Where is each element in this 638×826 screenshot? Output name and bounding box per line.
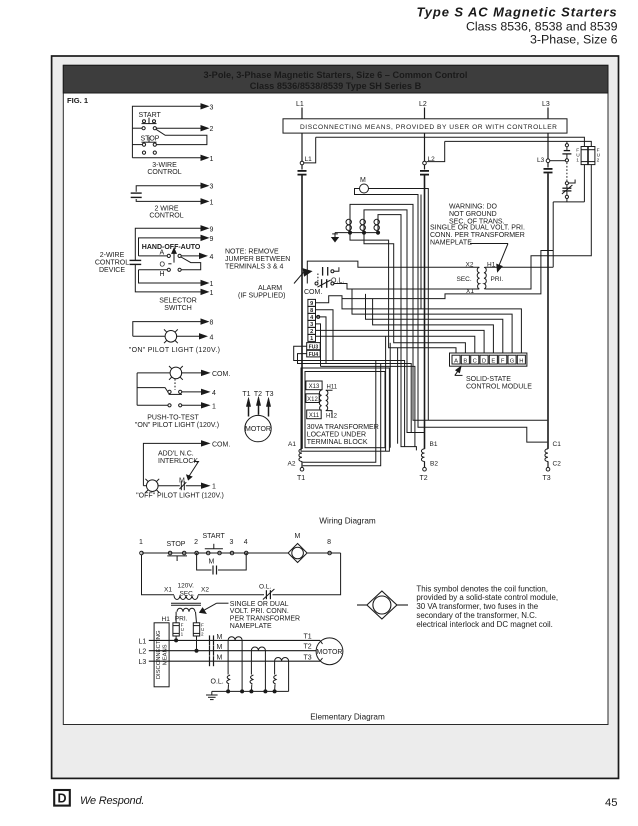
svg-text:Class 8536, 8538 and 8539: Class 8536, 8538 and 8539 [466, 20, 618, 34]
L2 phase wire [149, 650, 316, 652]
svg-text:T3: T3 [265, 391, 273, 398]
inner figure panel [63, 65, 608, 724]
FU2 drop to L2 [196, 636, 198, 651]
svg-text:X1: X1 [164, 587, 172, 594]
svg-text:1: 1 [181, 632, 184, 637]
svg-text:STOP: STOP [167, 541, 186, 548]
svg-text:CONTROL: CONTROL [147, 169, 181, 176]
svg-text:1: 1 [210, 290, 214, 297]
M contact L3 [210, 655, 223, 667]
M contact L1 [210, 634, 223, 646]
long wire 8/FU3 down [333, 361, 405, 447]
terminal X11 [307, 410, 322, 419]
svg-text:FU3: FU3 [309, 344, 319, 350]
jumper wire L1 to FU2 [316, 137, 585, 146]
svg-text:PUSH-TO-TEST: PUSH-TO-TEST [147, 414, 199, 421]
wire X1 to O.L. N.C. [334, 284, 479, 290]
pole 3 feed wire to B2 stub [378, 215, 416, 451]
svg-text:LOCATED UNDER: LOCATED UNDER [307, 431, 366, 438]
heater drop T2a with O.L. element [250, 651, 253, 692]
svg-text:C: C [473, 358, 477, 364]
T1 terminal circle [300, 461, 304, 471]
svg-text:A1: A1 [288, 441, 296, 448]
pole 2 load wire to module B [364, 233, 465, 353]
svg-text:C2: C2 [553, 461, 562, 468]
coil symbol diamond [357, 591, 408, 619]
interlock mechanical link [566, 163, 568, 182]
wire terminal 9 to module H [316, 296, 522, 353]
svg-text:T2: T2 [304, 643, 312, 650]
2-wire control device contact [130, 260, 142, 264]
interlock N.C. contact [158, 481, 209, 490]
L3 pole: wire, terminal circle, fuse clips [544, 133, 553, 449]
svg-text:B2: B2 [430, 461, 438, 468]
svg-text:TERMINALS 3 & 4: TERMINALS 3 & 4 [225, 264, 283, 271]
stop lower terminals [142, 151, 156, 154]
pole 2 feed wire to B1 [364, 210, 425, 433]
svg-text:NAMEPLATE: NAMEPLATE [430, 240, 472, 247]
svg-text:L1: L1 [139, 638, 147, 645]
svg-text:FIG. 1: FIG. 1 [67, 96, 89, 105]
wire terminal 4 down [316, 317, 327, 364]
ON pilot light [133, 329, 207, 343]
coil C [545, 449, 548, 462]
30VA transformer inner box [305, 372, 385, 448]
svg-text:9: 9 [210, 236, 214, 243]
svg-text:HAND-OFF-AUTO: HAND-OFF-AUTO [142, 244, 201, 251]
motor lead slants [320, 640, 323, 644]
rail left drop [142, 555, 175, 595]
jumper wire L2 to interlock contact [445, 141, 592, 146]
svg-text:O.L.: O.L. [331, 278, 344, 285]
svg-text:2: 2 [201, 632, 204, 637]
ground symbol (elementary) [206, 691, 218, 699]
L1 phase wire [149, 639, 320, 641]
add'l interlock wire to COM. [143, 441, 209, 486]
svg-text:NOTE: REMOVE: NOTE: REMOVE [225, 249, 279, 256]
selector switch: wire to 9 (outer) [135, 226, 208, 260]
pole 1 feed wire to C upper [350, 204, 547, 420]
wire interlock lower to fuse bus [553, 165, 584, 202]
coil B [421, 449, 424, 462]
wire X2 to O.L. [198, 594, 264, 596]
terminal 2 [194, 539, 198, 555]
svg-text:"OFF" PILOT LIGHT (120V.): "OFF" PILOT LIGHT (120V.) [136, 492, 224, 499]
svg-text:ADD'L N.C.: ADD'L N.C. [158, 451, 194, 458]
svg-text:DISCONNECTING MEANS, PROVIDE: DISCONNECTING MEANS, PROVIDED BY USER OR… [300, 124, 557, 131]
L1 pole: wire, terminal circle, fuse clips [298, 133, 307, 449]
mechanical link dashes [174, 379, 176, 390]
wire A to H loop [181, 257, 201, 270]
svg-text:8: 8 [327, 539, 331, 546]
terminal block 4 [308, 313, 316, 321]
svg-text:COM.: COM. [304, 289, 322, 296]
pole 1 load wire to module A [350, 233, 456, 353]
transformer primary winding (elementary) [177, 608, 195, 612]
svg-text:A2: A2 [288, 461, 296, 468]
MAIN_DIAGRAM [139, 533, 343, 700]
wire start to stop loop [156, 129, 207, 144]
30VA transformer windings [319, 390, 321, 410]
N.C. interlock contact lower [562, 180, 575, 199]
legend text [416, 584, 558, 629]
30VA winding leads [326, 389, 332, 392]
svg-text:T3: T3 [543, 475, 551, 482]
svg-text:D: D [482, 358, 486, 364]
wire stub right of L2 [420, 195, 422, 309]
svg-text:SINGLE OR DUAL: SINGLE OR DUAL [230, 601, 289, 608]
terminal X13 [306, 381, 322, 390]
stop contact N.C. [167, 551, 187, 561]
left rail push-to-test [136, 373, 138, 405]
svg-text:3-WIRE: 3-WIRE [152, 162, 177, 169]
contactor pole 3 [374, 217, 379, 233]
svg-text:1: 1 [210, 199, 214, 206]
L2 incoming wire [424, 108, 426, 119]
svg-text:4: 4 [210, 334, 214, 341]
M contact L2 [210, 644, 223, 656]
svg-text:L1: L1 [305, 156, 313, 163]
svg-text:M: M [217, 644, 223, 651]
overload common bus [212, 690, 289, 692]
ON pilot light wire to 8 [133, 319, 208, 336]
long wire 3 down [321, 366, 415, 446]
svg-text:(IF SUPPLIED): (IF SUPPLIED) [238, 293, 285, 300]
svg-text:STOP: STOP [141, 136, 160, 143]
svg-text:1: 1 [310, 336, 313, 342]
test switch row 4 [137, 388, 209, 395]
fuse FU2 (elementary) [193, 623, 199, 636]
3-wire control: top wire to terminal 3 [132, 104, 208, 158]
disconnecting means box [283, 119, 567, 133]
svg-text:B: B [463, 358, 467, 364]
2-wire device contact [131, 193, 142, 197]
svg-text:JUMPER BETWEEN: JUMPER BETWEEN [225, 256, 290, 263]
wire X2 to O.L. block [307, 261, 479, 283]
svg-text:T3: T3 [304, 655, 312, 662]
wire terminal 2 to module D [316, 330, 485, 353]
svg-text:secondary of the transformer,: secondary of the transformer, N.C. [416, 611, 537, 620]
wire X1 tap to module G [352, 289, 512, 353]
coil A [299, 449, 302, 462]
wire down to terminal block (left) [385, 336, 387, 451]
figure header bar [63, 65, 608, 93]
svg-text:SWITCH: SWITCH [164, 305, 192, 312]
wire down to A2 (right) [303, 364, 381, 466]
wire tap to control network [342, 251, 553, 299]
svg-text:30VA TRANSFORMER: 30VA TRANSFORMER [307, 424, 379, 431]
svg-text:L2: L2 [139, 649, 147, 656]
svg-text:X11: X11 [309, 413, 320, 419]
svg-text:CONTROL: CONTROL [95, 260, 129, 267]
M coil diamond symbol [288, 544, 307, 563]
terminal block 9 [308, 299, 316, 307]
junction dots [348, 231, 351, 234]
module pointer [455, 367, 463, 376]
svg-text:COM.: COM. [212, 371, 230, 378]
O.L. N.O. contact [323, 267, 339, 276]
30VA transformer outer box [301, 368, 389, 451]
terminal 1 [139, 539, 143, 555]
heater drop T3a with O.L. element [273, 661, 276, 691]
svg-text:START: START [139, 112, 162, 119]
terminal block 2 [308, 327, 316, 335]
svg-text:O: O [160, 261, 166, 268]
wire to 9 (inner) [139, 235, 209, 256]
T3 terminal circle [546, 461, 550, 471]
svg-text:TERMINAL BLOCK: TERMINAL BLOCK [307, 439, 368, 446]
T2 terminal circle [423, 461, 427, 471]
O.L. N.C. contact [315, 279, 334, 288]
wire tap to module E [373, 299, 494, 353]
svg-text:Class 8536/8538/8539 Type SH S: Class 8536/8538/8539 Type SH Series B [250, 81, 422, 91]
primary lead to FU1 [175, 612, 177, 623]
solid-state module terminal strip [450, 353, 527, 366]
svg-text:L3: L3 [537, 157, 545, 164]
O position dash [168, 263, 171, 265]
svg-text:MOTOR: MOTOR [245, 426, 271, 433]
svg-text:PRI.: PRI. [491, 276, 504, 283]
svg-text:L2: L2 [419, 101, 427, 108]
svg-text:"ON" PILOT LIGHT (120V.): "ON" PILOT LIGHT (120V.) [129, 347, 220, 354]
L3 incoming wire [547, 108, 549, 119]
svg-text:DEVICE: DEVICE [99, 267, 125, 274]
svg-text:SINGLE OR DUAL VOLT. PRI.: SINGLE OR DUAL VOLT. PRI. [430, 225, 525, 232]
start contact N.O. [205, 544, 223, 555]
wire terminal 3 down [316, 324, 321, 367]
svg-text:F: F [501, 358, 505, 364]
svg-text:1: 1 [576, 158, 579, 164]
svg-text:Elementary Diagram: Elementary Diagram [310, 713, 385, 722]
svg-text:O.L.: O.L. [259, 584, 271, 591]
svg-text:2-WIRE: 2-WIRE [100, 252, 125, 259]
svg-text:1: 1 [139, 539, 143, 546]
svg-text:WARNING: DO: WARNING: DO [449, 204, 498, 211]
svg-text:1: 1 [212, 403, 216, 410]
terminal 3 [230, 539, 234, 555]
coil wire left to C1 [355, 189, 548, 443]
svg-text:CONN. PER TRANSFORMER: CONN. PER TRANSFORMER [430, 232, 525, 239]
M seal-in branch [197, 553, 247, 575]
svg-text:SOLID-STATE: SOLID-STATE [466, 376, 511, 383]
heater drop T1b [241, 640, 243, 691]
nameplate pointer [470, 244, 508, 272]
wire bus to transformer H1 [552, 202, 554, 267]
terminal block 3 [308, 320, 316, 328]
svg-text:A: A [454, 358, 458, 364]
svg-text:45: 45 [605, 797, 617, 809]
svg-text:T1: T1 [297, 475, 305, 482]
terminal block 1 [308, 334, 316, 342]
svg-text:T2: T2 [254, 391, 262, 398]
svg-text:2: 2 [597, 158, 600, 164]
svg-text:MOTOR: MOTOR [317, 649, 343, 656]
svg-text:"ON" PILOT LIGHT (120V.): "ON" PILOT LIGHT (120V.) [135, 422, 219, 429]
OFF pilot light [143, 479, 159, 493]
primary lead to FU2 [196, 612, 197, 623]
svg-text:CONTROL: CONTROL [149, 213, 183, 220]
contactor coil M [360, 184, 369, 193]
fuse block FU3 [307, 343, 321, 351]
L1 terminal bracket [304, 137, 316, 163]
terminal 4 wire circle [317, 315, 320, 318]
svg-text:ALARM: ALARM [258, 285, 282, 292]
svg-text:1: 1 [210, 156, 214, 163]
svg-text:30 VA transformer, two fuses i: 30 VA transformer, two fuses in the [416, 602, 538, 611]
svg-text:G: G [510, 358, 515, 364]
overload heater T1 [228, 637, 242, 640]
wire down from module A line [397, 348, 399, 444]
terminal 8 [327, 539, 331, 555]
Square D logo [54, 790, 70, 806]
bus junction dots [227, 690, 230, 693]
svg-text:SEC.: SEC. [457, 276, 472, 283]
svg-text:COM.: COM. [212, 441, 230, 448]
coil wire right into bundle [369, 189, 429, 421]
svg-text:provided by a solid-state cont: provided by a solid-state control module… [416, 593, 558, 602]
L3 terminal bracket to interlock [550, 160, 566, 162]
svg-text:4: 4 [210, 254, 214, 261]
svg-text:Type S AC Magnetic Starters: Type S AC Magnetic Starters [416, 5, 617, 20]
bottom wire to terminal 1 [132, 155, 208, 160]
motor circle (elementary) [316, 638, 343, 665]
svg-text:This symbol denotes the coil f: This symbol denotes the coil function, [416, 584, 548, 593]
svg-text:H: H [519, 358, 523, 364]
selector knob arrow [172, 248, 176, 262]
svg-text:PER TRANSFORMER: PER TRANSFORMER [230, 616, 300, 623]
nameplate pointer (elementary) [200, 603, 229, 613]
svg-text:L3: L3 [542, 101, 550, 108]
svg-text:INTERLOCK: INTERLOCK [158, 458, 198, 465]
disconnecting means box (elementary) [154, 623, 169, 687]
wire down to A2 (left) [303, 361, 376, 463]
svg-text:1: 1 [210, 281, 214, 288]
bottom wire to 1 [136, 199, 208, 204]
L2 terminal bracket [427, 141, 445, 161]
motor lead arrows [246, 397, 270, 417]
interlock pointer [187, 462, 199, 480]
push-to-test pilot light [137, 366, 209, 380]
svg-text:H: H [160, 271, 165, 278]
svg-text:NAMEPLATE: NAMEPLATE [230, 623, 272, 630]
svg-text:T2: T2 [420, 475, 428, 482]
wire tap to module F [366, 294, 503, 353]
long wire 4/FU4 down [326, 364, 411, 433]
svg-text:3: 3 [230, 539, 234, 546]
alarm wire arrow [294, 269, 311, 284]
svg-text:L3: L3 [139, 659, 147, 666]
svg-text:VOLT. PRI. CONN.: VOLT. PRI. CONN. [230, 608, 289, 615]
terminal X12 [306, 394, 319, 403]
rail right drop [273, 553, 341, 595]
elementary control rail [142, 552, 341, 554]
start contact terminals wire to 2 [132, 126, 208, 131]
svg-text:M: M [217, 634, 223, 641]
svg-text:4: 4 [244, 539, 248, 546]
wire down to terminal block (right) [389, 343, 391, 448]
svg-text:T1: T1 [242, 391, 250, 398]
overload heater T3 [275, 658, 289, 662]
2 wire control: top wire to 3 [136, 183, 208, 192]
svg-text:E: E [491, 358, 495, 364]
fuse FU4 loop wire [298, 354, 327, 364]
fuse FU2 [588, 147, 595, 165]
transformer secondary winding (elementary) [174, 595, 198, 599]
transformer core bar [171, 602, 201, 604]
svg-text:1: 1 [212, 484, 216, 491]
svg-text:C1: C1 [553, 441, 562, 448]
svg-text:M: M [295, 533, 301, 540]
fuse block FU4 [307, 350, 321, 358]
svg-text:H1: H1 [162, 616, 171, 623]
svg-text:FU4: FU4 [309, 352, 319, 358]
svg-text:We Respond.: We Respond. [80, 795, 144, 807]
svg-text:T1: T1 [304, 633, 312, 640]
terminal block 8 [308, 306, 316, 314]
svg-text:X2: X2 [201, 587, 209, 594]
svg-text:PRI.: PRI. [175, 616, 188, 623]
svg-text:2 WIRE: 2 WIRE [154, 205, 178, 212]
svg-text:D: D [57, 792, 66, 806]
wire FU2 to transformer H2 [485, 165, 591, 289]
svg-text:3: 3 [210, 184, 214, 191]
svg-text:L1: L1 [296, 101, 304, 108]
fuse FU3 loop wire [294, 346, 333, 360]
svg-text:electrical interlock and DC ma: electrical interlock and DC magnet coil. [416, 620, 552, 629]
svg-text:H1: H1 [487, 262, 496, 269]
selector row H contacts [139, 268, 182, 271]
svg-text:M: M [217, 655, 223, 662]
contactor pole 2 [360, 217, 365, 233]
L2 pole: wire, terminal circle, fuse clips [420, 133, 429, 449]
start pushbutton N.O. [142, 118, 157, 124]
motor circle [245, 415, 271, 441]
svg-text:O.L.: O.L. [211, 679, 224, 686]
wire to 1 (inner) [139, 270, 209, 286]
svg-text:B1: B1 [430, 441, 438, 448]
stop pushbutton N.C. [132, 137, 156, 146]
svg-text:NOT GROUND: NOT GROUND [449, 211, 497, 218]
heater drop T3b [288, 661, 290, 691]
svg-text:SELECTOR: SELECTOR [159, 298, 197, 305]
wire terminal 1 to module C [316, 336, 475, 353]
svg-text:X13: X13 [309, 384, 320, 390]
svg-text:3-Pole, 3-Phase Magnetic Start: 3-Pole, 3-Phase Magnetic Starters, Size … [204, 70, 468, 80]
L3 phase wire [149, 660, 320, 662]
N.C. interlock contact upper [562, 144, 571, 162]
ground symbol [332, 233, 338, 242]
heater drop T1a with O.L. element [227, 640, 230, 691]
svg-text:MEANS: MEANS [162, 644, 168, 665]
L1 incoming wire [301, 108, 303, 119]
wire terminal 8 down [316, 310, 334, 361]
svg-text:4: 4 [212, 390, 216, 397]
svg-text:CONTROL MODULE: CONTROL MODULE [466, 384, 532, 391]
svg-text:3-Phase, Size 6: 3-Phase, Size 6 [530, 33, 618, 47]
svg-text:8: 8 [210, 320, 214, 327]
transformer primary winding [484, 267, 486, 289]
svg-text:120V.: 120V. [178, 583, 195, 590]
svg-text:DISCONNECTING: DISCONNECTING [156, 630, 162, 679]
transformer secondary winding [477, 267, 479, 289]
FU1 drop to L1 [175, 636, 177, 640]
svg-text:M: M [360, 177, 366, 184]
ELEM_DIAGRAM [357, 584, 558, 629]
svg-text:9: 9 [210, 226, 214, 233]
overload heater T2 [251, 647, 265, 651]
contactor pole 1 [346, 217, 351, 233]
selector row A contacts, wire to 4 [139, 253, 207, 258]
